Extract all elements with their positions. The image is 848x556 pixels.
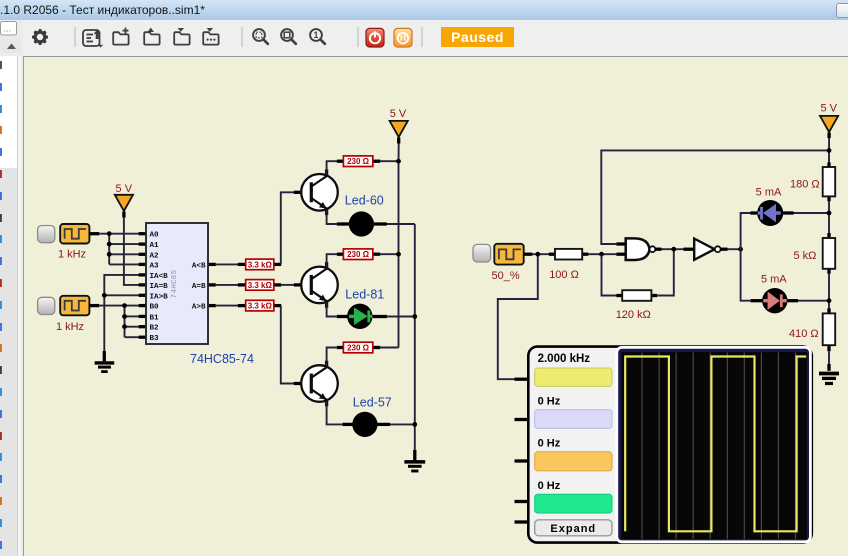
separator xyxy=(74,27,76,47)
resistor R9 180 xyxy=(790,163,835,202)
channel 3 orange bar xyxy=(535,452,612,471)
wire node to Led purple xyxy=(741,213,751,249)
svg-text:74HC85: 74HC85 xyxy=(171,269,179,298)
LED D1 purple 5mA xyxy=(750,187,793,227)
resistor R7 100 xyxy=(549,249,589,281)
new circuit folder icon xyxy=(113,28,128,45)
svg-text:230 Ω: 230 Ω xyxy=(347,344,370,353)
svg-text:1 kHz: 1 kHz xyxy=(58,249,86,261)
LED D2 red 5mA xyxy=(751,274,798,314)
svg-text:Expand: Expand xyxy=(550,523,596,535)
scroll up button xyxy=(1,39,22,53)
svg-text:410 Ω: 410 Ω xyxy=(789,328,819,340)
wire NAND to inverter xyxy=(662,248,684,250)
voltage source V3 5V (right) xyxy=(820,103,838,139)
wire to A3 xyxy=(109,263,139,265)
wire Led-60 to cathode rail xyxy=(387,223,415,225)
wire R10 to red row xyxy=(828,274,830,308)
voltage source V2 5V xyxy=(390,108,408,144)
wire Q2 emitter to Led-81 xyxy=(327,302,338,316)
svg-text:0 Hz: 0 Hz xyxy=(538,480,561,492)
scope pin 5 xyxy=(515,520,530,523)
wire Q2 collector to R2 xyxy=(327,254,338,267)
junction dot LED node xyxy=(738,247,743,252)
channel 1 yellow bar xyxy=(535,368,612,386)
scope panel body xyxy=(528,347,812,543)
clock source CLK2 xyxy=(38,296,100,333)
svg-text:IA=B: IA=B xyxy=(150,283,169,291)
wire R1 to 5V rail xyxy=(380,160,398,162)
ground GND3 xyxy=(819,364,839,384)
wire V3 to rail xyxy=(828,138,830,151)
svg-text:B1: B1 xyxy=(150,314,160,322)
clock source CLK1 xyxy=(38,224,100,261)
svg-text:230 Ω: 230 Ω xyxy=(347,157,370,166)
save as folder icon xyxy=(203,28,218,45)
svg-text:230 Ω: 230 Ω xyxy=(347,250,370,259)
window title bar xyxy=(0,0,848,20)
resistor R1 230 xyxy=(337,156,380,167)
zoom selected icon xyxy=(281,29,296,44)
LED Led-57 (off) xyxy=(343,396,392,438)
svg-text:A<B: A<B xyxy=(192,262,206,270)
node A column xyxy=(108,234,110,265)
reload netlist icon xyxy=(83,30,103,48)
power off button xyxy=(366,28,384,47)
svg-text:B3: B3 xyxy=(150,335,160,343)
wire R11 to ground xyxy=(828,351,830,364)
component icon slivers xyxy=(0,61,2,549)
svg-text:3.3 kΩ: 3.3 kΩ xyxy=(248,260,273,269)
svg-text:100 Ω: 100 Ω xyxy=(549,269,579,281)
resistor R10 5k xyxy=(794,233,836,274)
svg-text:120 kΩ: 120 kΩ xyxy=(616,309,651,321)
wire ground rail to IA&lt;B xyxy=(104,275,139,351)
gear settings icon xyxy=(32,29,48,45)
resistor R6 3.3k xyxy=(238,300,281,311)
resistor R4 3.3k xyxy=(238,259,281,270)
NAND gate U2 xyxy=(616,238,661,260)
transistor Q3 xyxy=(294,361,338,407)
junction dot NAND output xyxy=(671,247,676,252)
junction dot NAND input node xyxy=(599,252,604,257)
clock source CLK3 50% xyxy=(473,244,532,282)
channel 2 lavender bar xyxy=(535,410,612,429)
open circuit folder icon xyxy=(144,28,159,45)
svg-text:5 mA: 5 mA xyxy=(756,187,782,199)
separator xyxy=(421,27,423,47)
pause sim button xyxy=(394,28,412,47)
wire to A2 xyxy=(109,253,139,255)
svg-text:180 Ω: 180 Ω xyxy=(790,178,820,190)
svg-text:5 V: 5 V xyxy=(820,103,837,115)
svg-text:A>B: A>B xyxy=(192,304,206,312)
scope screen xyxy=(621,352,807,539)
svg-text:A3: A3 xyxy=(150,262,160,270)
svg-text:1 kHz: 1 kHz xyxy=(56,321,84,333)
left sidebar xyxy=(0,20,23,556)
wire to B3 xyxy=(125,336,140,338)
wire node to R8 feedback xyxy=(602,254,617,295)
channel 4 green bar xyxy=(535,494,612,513)
junction dot CLK3 node xyxy=(535,252,540,257)
search box with dots xyxy=(1,22,17,36)
scope screen frame xyxy=(617,347,811,541)
svg-text:3.3 kΩ: 3.3 kΩ xyxy=(248,302,273,311)
wire R3 to 5V rail end xyxy=(380,347,398,349)
svg-text:Led-81: Led-81 xyxy=(345,288,384,302)
resistor R8 120k xyxy=(616,290,658,321)
wire Q3 emitter to Led-57 xyxy=(327,401,343,425)
wire A&lt;B to R4 xyxy=(216,263,239,265)
svg-text:B2: B2 xyxy=(150,325,160,333)
wire A=B to R5 xyxy=(216,284,239,286)
separator xyxy=(241,27,243,47)
LED Led-81 (on, green) xyxy=(337,288,387,329)
wire inverter to LED node xyxy=(728,248,741,250)
LED Led-60 (off) xyxy=(337,194,387,237)
resistor R5 3.3k xyxy=(238,280,281,291)
svg-text:A=B: A=B xyxy=(192,283,206,291)
wire to IA&gt;B xyxy=(104,294,139,296)
window control button fragment xyxy=(836,3,848,18)
wire R6 to Q3 base xyxy=(281,306,294,384)
wire Q3 collector to R3 xyxy=(327,348,338,367)
svg-text:0 Hz: 0 Hz xyxy=(538,438,561,450)
svg-text:5 kΩ: 5 kΩ xyxy=(794,250,817,262)
ground GND1 xyxy=(95,351,115,372)
wire Led-57 to cathode rail xyxy=(390,423,415,425)
junction dots B bus xyxy=(122,303,127,308)
zoom 1:1 icon xyxy=(310,29,325,44)
resistor R2 230 xyxy=(337,249,380,260)
separator xyxy=(357,27,359,47)
wire node to Led red xyxy=(741,249,751,301)
wire R8 to NAND output node xyxy=(657,249,674,295)
wire rail to R9 xyxy=(828,150,830,162)
wire CLK3 node to scope ch1 xyxy=(498,254,538,379)
svg-text:A2: A2 xyxy=(150,252,160,260)
wire Led red to 5V rail xyxy=(798,300,829,302)
junction dot ground rail xyxy=(102,293,107,298)
scope pin 2 xyxy=(515,418,530,421)
scope pin 3 xyxy=(515,459,530,462)
transistor Q2 xyxy=(294,262,338,308)
cathode rail xyxy=(414,224,416,450)
sidebar background xyxy=(0,20,23,556)
svg-text:5 V: 5 V xyxy=(390,108,407,120)
svg-text:5 mA: 5 mA xyxy=(761,274,787,286)
svg-text:50_%: 50_% xyxy=(492,270,520,282)
junction dots cathode rail xyxy=(412,314,417,319)
resistor R3 230 xyxy=(337,342,380,353)
transistor Q1 xyxy=(294,170,338,216)
svg-text:IA>B: IA>B xyxy=(150,293,169,301)
ground GND2 xyxy=(404,450,425,471)
svg-text:Led-60: Led-60 xyxy=(345,194,384,208)
node B column xyxy=(124,306,126,338)
voltage source V1 5V (left) xyxy=(115,183,133,218)
scope pin 1 xyxy=(515,378,530,381)
scrollbar track xyxy=(18,56,22,556)
wire R9 to purple row xyxy=(828,201,830,233)
wire R4 to Q1 base xyxy=(281,192,294,264)
wire R5 to Q2 base xyxy=(281,284,294,286)
wire CLK1 to A0 xyxy=(99,233,139,235)
wire feedback from 5V rail to NAND input A xyxy=(601,150,829,244)
wire R2 to 5V rail xyxy=(380,253,398,255)
svg-text:0 Hz: 0 Hz xyxy=(538,396,561,408)
svg-text:A0: A0 xyxy=(150,232,160,240)
wire R7 to NAND input B xyxy=(588,253,616,255)
svg-text:B0: B0 xyxy=(150,304,160,312)
wire Q1 emitter to Led-60 xyxy=(327,210,338,225)
wire CLK2 to B0 xyxy=(99,305,139,307)
scope gridlines xyxy=(642,353,796,540)
wire A&gt;B to R6 xyxy=(216,305,239,307)
scope trace ch1 xyxy=(625,357,806,532)
wire to B2 xyxy=(125,326,140,328)
svg-text:...: ... xyxy=(4,24,12,34)
paused badge xyxy=(441,27,514,47)
junction dots 5V rail xyxy=(396,159,401,164)
svg-text:Led-57: Led-57 xyxy=(353,396,392,410)
zoom to fit icon xyxy=(253,29,268,44)
save circuit folder icon xyxy=(174,28,189,45)
svg-text:5 V: 5 V xyxy=(116,183,133,195)
wire to B1 xyxy=(125,315,140,317)
wire to A1 xyxy=(109,243,139,245)
wire CLK3 to R7 xyxy=(532,253,549,255)
toolbar xyxy=(23,20,848,56)
scope pin 4 xyxy=(515,500,530,503)
svg-text:3.3 kΩ: 3.3 kΩ xyxy=(248,281,273,290)
wire V1 to IA=B pin xyxy=(124,218,139,285)
svg-text:1: 1 xyxy=(313,30,318,40)
wire Led purple to 5V rail xyxy=(794,212,830,214)
wire Led-81 to cathode rail xyxy=(387,316,415,318)
resistor R11 410 xyxy=(789,308,835,351)
expand button xyxy=(535,520,612,536)
IC U1 74HC85 comparator xyxy=(139,223,254,366)
5V rail (left circuit) xyxy=(398,144,400,348)
svg-text:IA<B: IA<B xyxy=(150,273,169,281)
junction dots right rail xyxy=(827,148,832,153)
components list white area xyxy=(0,56,18,168)
junction dots A bus xyxy=(107,231,112,236)
inverter U3 xyxy=(684,239,728,260)
svg-text:2.000 kHz: 2.000 kHz xyxy=(538,353,591,365)
wire Q1 collector to R1 xyxy=(327,161,338,175)
svg-text:74HC85-74: 74HC85-74 xyxy=(190,352,254,366)
svg-text:A1: A1 xyxy=(150,242,160,250)
